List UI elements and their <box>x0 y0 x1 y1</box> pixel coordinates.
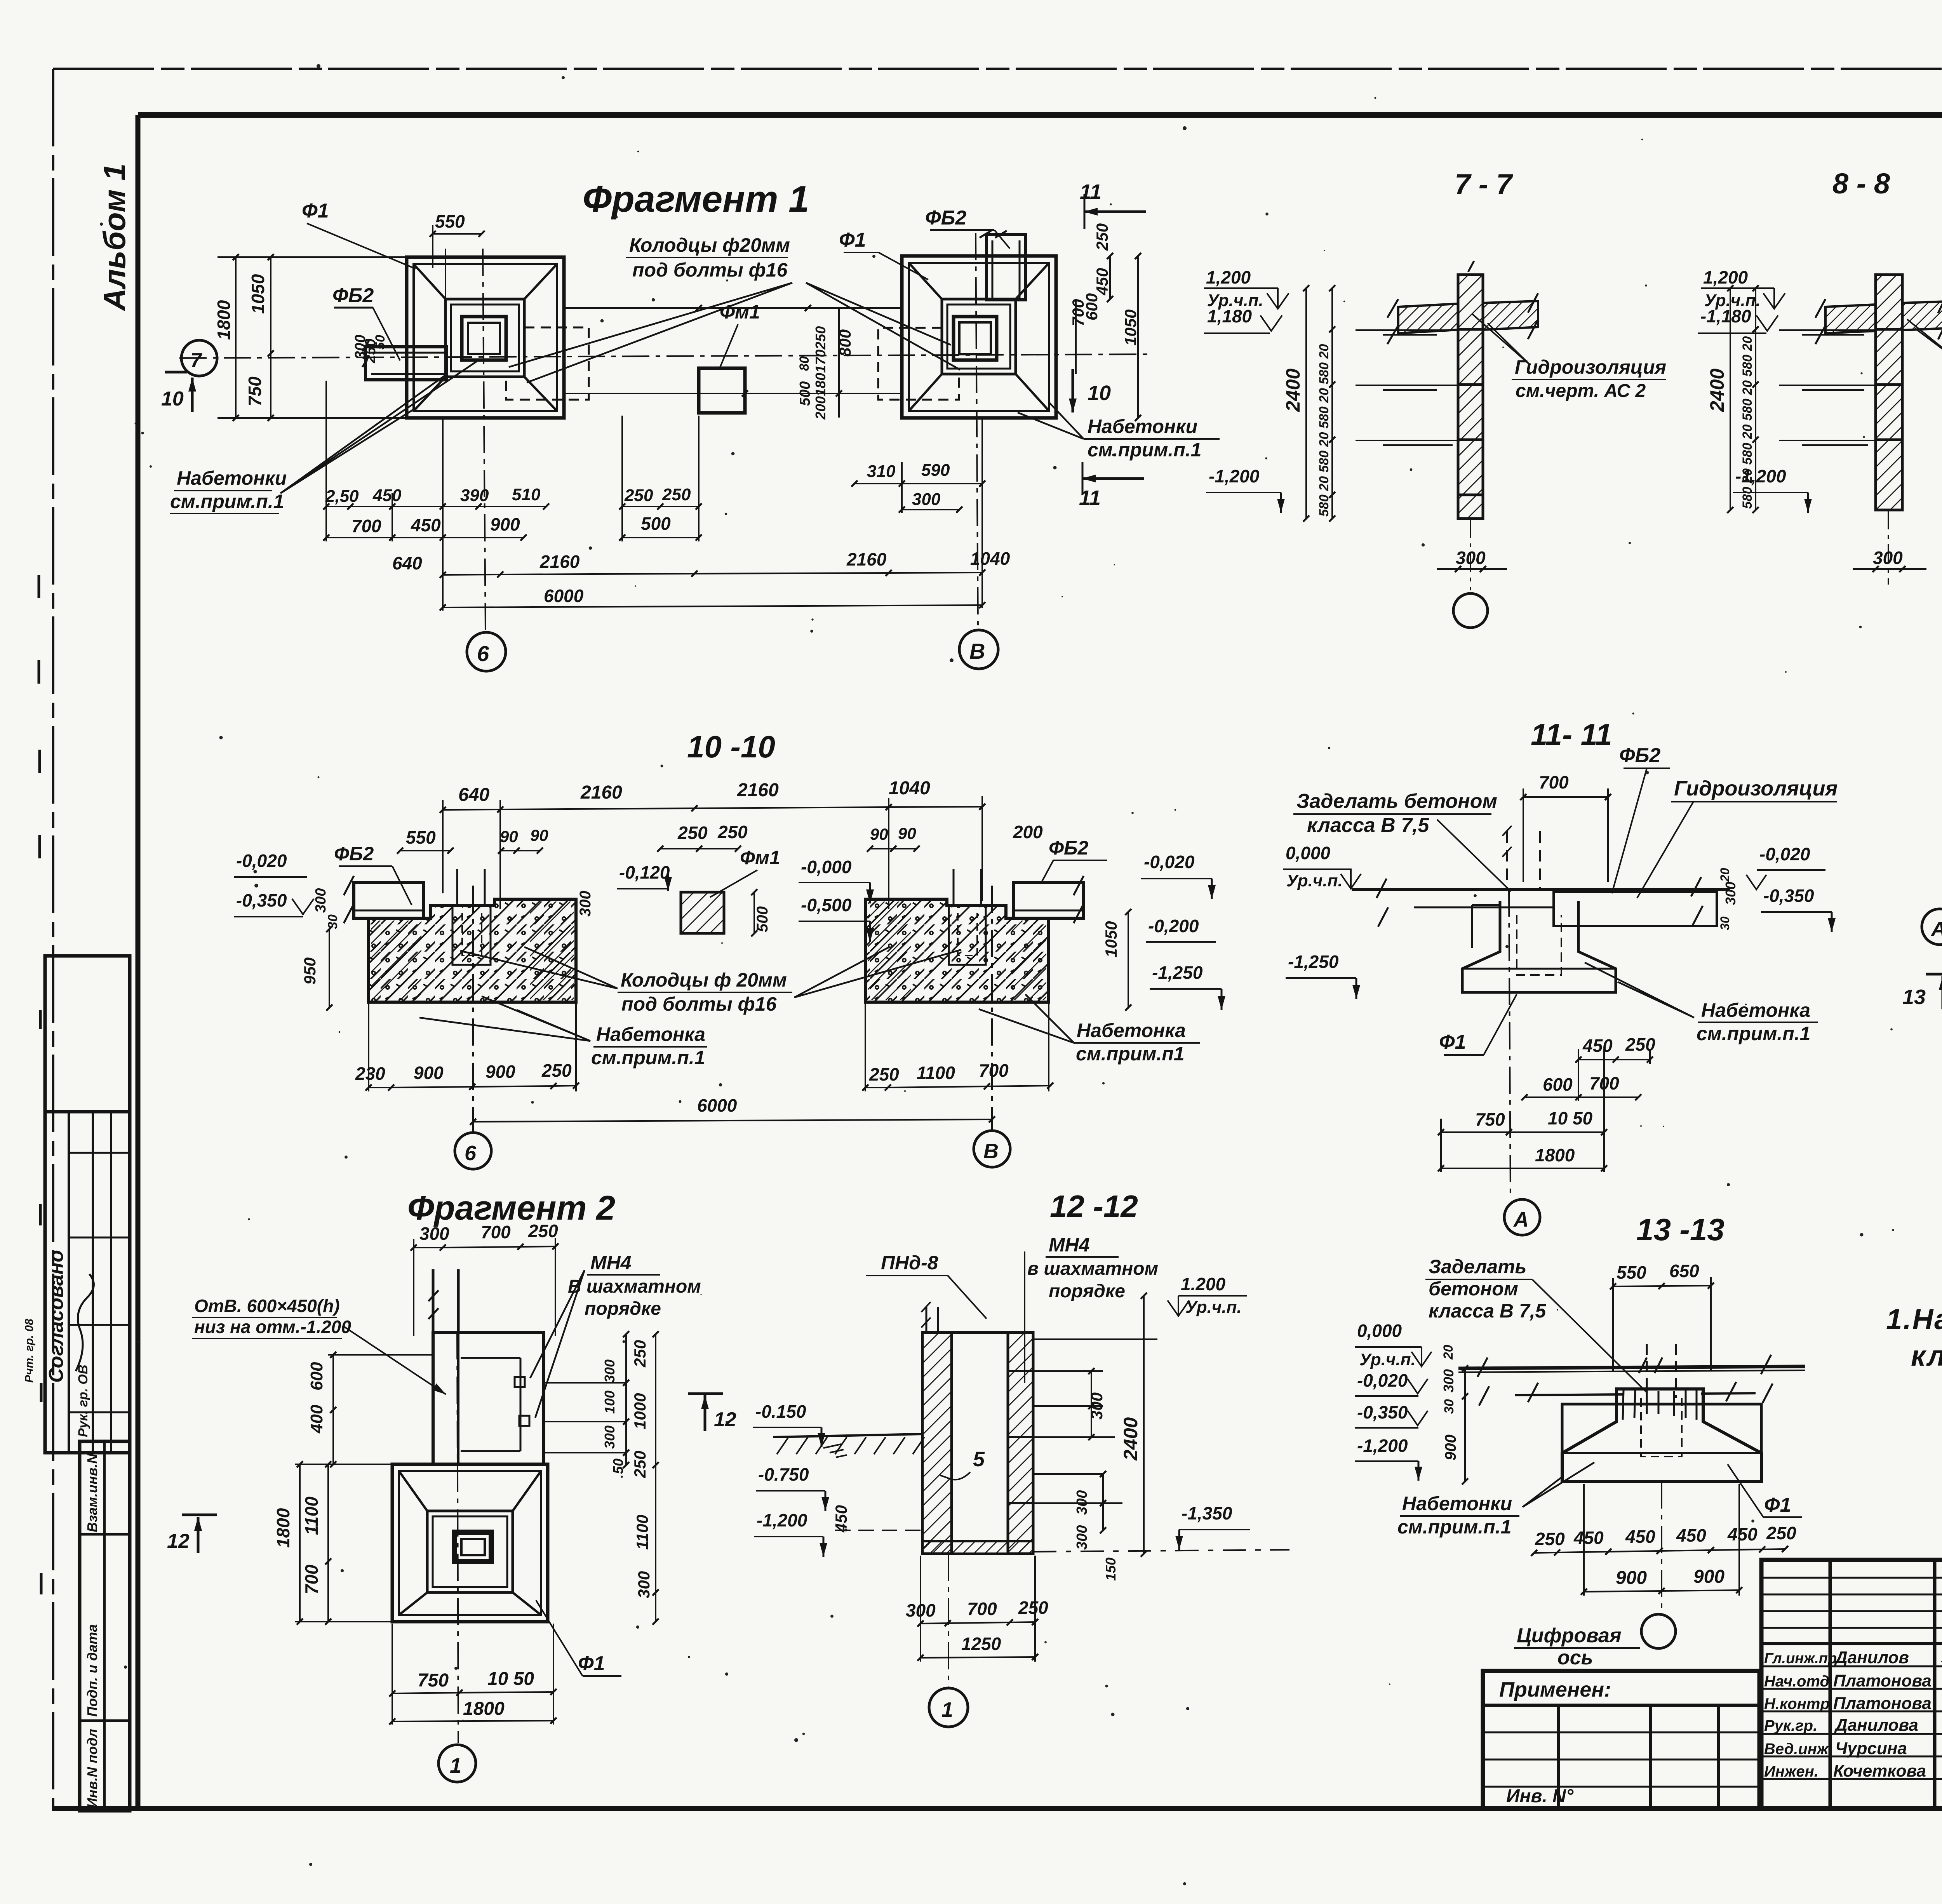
svg-text:0,000: 0,000 <box>1357 1321 1402 1341</box>
svg-text:450: 450 <box>372 486 402 505</box>
svg-text:550: 550 <box>1617 1262 1646 1283</box>
7-7 vertical dim 2400 <box>1305 288 1307 519</box>
svg-text:250: 250 <box>624 486 653 505</box>
inner thick frame <box>138 112 1942 118</box>
svg-text:50: 50 <box>610 1458 626 1474</box>
svg-text:650: 650 <box>1669 1261 1699 1281</box>
svg-text:450: 450 <box>411 515 441 535</box>
svg-text:250: 250 <box>1535 1529 1565 1549</box>
svg-text:ФБ2: ФБ2 <box>332 284 374 307</box>
svg-text:ОтВ. 600×450(h): ОтВ. 600×450(h) <box>194 1296 340 1316</box>
svg-text:Рчт. гр. 08: Рчт. гр. 08 <box>23 1319 36 1383</box>
FRAGMENT 3 <box>1902 719 1942 1242</box>
svg-text:1: 1 <box>941 1698 953 1721</box>
svg-text:в шахматном: в шахматном <box>1027 1258 1158 1279</box>
svg-text:-1,250: -1,250 <box>1288 952 1339 972</box>
svg-text:-0,120: -0,120 <box>619 862 670 882</box>
stub above <box>926 1307 938 1332</box>
svg-text:300: 300 <box>1088 1392 1106 1420</box>
svg-text:2160: 2160 <box>580 782 622 803</box>
svg-text:310: 310 <box>867 462 896 481</box>
svg-text:500: 500 <box>641 513 671 534</box>
svg-text:6: 6 <box>465 1142 477 1165</box>
svg-text:300: 300 <box>1074 1525 1090 1550</box>
svg-text:А: А <box>1513 1208 1529 1231</box>
svg-text:750: 750 <box>418 1670 449 1691</box>
svg-text:700: 700 <box>352 516 381 536</box>
svg-text:Платонова: Платонова <box>1833 1694 1932 1713</box>
svg-text:класса В15. Расход бетона-3,2: класса В15. Расход бетона-3,2 м³ <box>1911 1340 1942 1372</box>
svg-text:2400: 2400 <box>1282 369 1304 412</box>
svg-text:510: 510 <box>512 485 541 504</box>
svg-text:-0,350: -0,350 <box>236 890 287 910</box>
svg-text:под болты ф16: под болты ф16 <box>632 259 788 281</box>
svg-text:Н.контр: Н.контр <box>1764 1695 1830 1713</box>
svg-text:1250: 1250 <box>961 1634 1001 1654</box>
lower narrow stamp <box>80 1441 130 1811</box>
svg-text:300: 300 <box>1456 548 1486 568</box>
svg-text:ФБ2: ФБ2 <box>925 207 966 229</box>
column above dashed <box>1507 831 1540 889</box>
svg-text:см.черт. АС 2: см.черт. АС 2 <box>1516 381 1646 401</box>
svg-text:250: 250 <box>631 1451 649 1478</box>
svg-text:Инв. N°: Инв. N° <box>1506 1786 1574 1807</box>
8-8 floor slab hatched <box>1825 305 1876 333</box>
vertical shading in glass top <box>1623 1391 1697 1420</box>
svg-text:450: 450 <box>1727 1524 1758 1544</box>
svg-text:-1,200: -1,200 <box>1209 466 1260 486</box>
svg-text:1.200: 1.200 <box>1181 1274 1226 1294</box>
axis + circle 1 <box>457 1332 458 1743</box>
svg-text:550: 550 <box>435 211 465 231</box>
svg-text:-0,350: -0,350 <box>1763 886 1814 906</box>
svg-text:300: 300 <box>635 1571 653 1598</box>
svg-text:250: 250 <box>541 1060 572 1081</box>
svg-text:590: 590 <box>921 461 950 480</box>
svg-text:см.прим.п.1: см.прим.п.1 <box>170 491 284 512</box>
svg-text:-0,350: -0,350 <box>1357 1402 1408 1422</box>
right plan: stepped nabetonka dashed left <box>878 328 959 400</box>
7-7 axis below and circle <box>1470 519 1471 590</box>
svg-text:200180170250: 200180170250 <box>813 326 828 420</box>
svg-text:250: 250 <box>1093 223 1111 251</box>
svg-text:2400: 2400 <box>1706 369 1728 412</box>
svg-text:2160: 2160 <box>846 549 887 569</box>
svg-text:300: 300 <box>912 490 941 509</box>
footing glass <box>1562 1389 1761 1481</box>
svg-text:1100: 1100 <box>633 1515 651 1550</box>
svg-text:5: 5 <box>973 1448 985 1471</box>
svg-text:низ на отм.-1.200: низ на отм.-1.200 <box>194 1317 351 1337</box>
svg-text:80: 80 <box>797 356 812 371</box>
svg-text:Ф1: Ф1 <box>578 1652 605 1675</box>
svg-text:Нач.отд: Нач.отд <box>1764 1673 1829 1690</box>
axis line Б vertical <box>483 249 486 631</box>
svg-text:Инв.N подл: Инв.N подл <box>84 1729 100 1808</box>
LEFT MARGIN <box>23 164 132 1811</box>
axis line В vertical <box>976 233 978 629</box>
svg-text:390: 390 <box>460 486 489 505</box>
svg-text:12: 12 <box>167 1530 190 1552</box>
nabetonka left block <box>1472 905 1500 948</box>
svg-text:Фрагмент 1: Фрагмент 1 <box>583 178 809 220</box>
axis circle 7 <box>181 340 217 376</box>
svg-text:Фм1: Фм1 <box>720 301 760 323</box>
section marks 12 <box>704 1395 706 1431</box>
SECTION 12-12 <box>773 1189 1289 1727</box>
svg-text:20: 20 <box>1441 1345 1456 1360</box>
svg-text:500: 500 <box>754 906 771 932</box>
svg-text:90: 90 <box>530 826 548 844</box>
svg-text:250: 250 <box>662 485 691 504</box>
svg-text:6000: 6000 <box>697 1095 737 1116</box>
axis circle 1 <box>948 1554 949 1688</box>
svg-text:ПНд-8: ПНд-8 <box>881 1252 938 1274</box>
svg-text:10: 10 <box>1088 381 1111 405</box>
svg-text:Чурсина: Чурсина <box>1835 1739 1907 1758</box>
svg-text:7 - 7: 7 - 7 <box>1455 168 1514 200</box>
svg-text:30: 30 <box>1442 1399 1456 1414</box>
svg-text:Набетонки: Набетонки <box>1088 416 1197 437</box>
svg-text:Применен:: Применен: <box>1499 1678 1611 1701</box>
left revision columns <box>1761 1560 1942 1808</box>
svg-text:1800: 1800 <box>1535 1145 1575 1165</box>
svg-text:300: 300 <box>602 1359 618 1383</box>
left plan: stepped nabetonka dashed right <box>506 327 589 400</box>
NOTE <box>1886 1303 1942 1372</box>
svg-text:580 20 580 20 580 20 580 20: 580 20 580 20 580 20 580 20 <box>1317 344 1331 517</box>
10-10 middle footing Фм1 <box>681 892 724 933</box>
МН4 marks <box>515 1377 525 1387</box>
svg-text:700: 700 <box>1539 772 1569 792</box>
svg-text:-0,020: -0,020 <box>236 851 287 871</box>
svg-text:Цифровая: Цифровая <box>1517 1624 1621 1647</box>
svg-text:300: 300 <box>419 1224 449 1244</box>
left plan: column square <box>462 317 506 360</box>
svg-text:8 - 8: 8 - 8 <box>1832 167 1890 200</box>
svg-text:900: 900 <box>1616 1568 1647 1588</box>
svg-text:450: 450 <box>1676 1525 1706 1545</box>
outer thin frame <box>53 68 1942 70</box>
axes & circles <box>472 886 474 1133</box>
svg-text:640: 640 <box>458 785 489 805</box>
wall plan above <box>433 1332 544 1464</box>
svg-text:10 -10: 10 -10 <box>687 729 775 764</box>
svg-text:90: 90 <box>500 827 518 846</box>
svg-text:1040: 1040 <box>889 778 930 799</box>
svg-text:см.прим.п1: см.прим.п1 <box>1076 1043 1185 1065</box>
left plan: mid square <box>445 299 524 377</box>
svg-text:0,000: 0,000 <box>1286 843 1331 863</box>
svg-text:250: 250 <box>717 822 748 842</box>
svg-text:800: 800 <box>836 329 854 357</box>
7-7 column hatched <box>1458 275 1483 519</box>
svg-text:ФБ2: ФБ2 <box>1049 837 1088 859</box>
svg-text:Взам.инв.N: Взам.инв.N <box>84 1453 100 1532</box>
svg-text:-1,350: -1,350 <box>1182 1503 1232 1523</box>
anchor wells right <box>954 869 981 905</box>
right plan: column square <box>954 317 997 360</box>
svg-text:-0,000: -0,000 <box>801 857 852 877</box>
svg-text:950: 950 <box>301 957 319 985</box>
svg-text:см.прим.п.1: см.прим.п.1 <box>1088 439 1201 461</box>
svg-text:580 20 580 20 580 20 580 20: 580 20 580 20 580 20 580 20 <box>1740 336 1755 509</box>
svg-text:90: 90 <box>870 825 888 843</box>
svg-text:-1,250: -1,250 <box>1152 962 1203 983</box>
svg-text:Гидроизоляция: Гидроизоляция <box>1515 356 1666 378</box>
svg-text:750: 750 <box>1475 1109 1505 1130</box>
FB2 block right below slab <box>1554 892 1717 926</box>
svg-text:90: 90 <box>898 824 916 842</box>
svg-text:Гидроизоляция: Гидроизоляция <box>1674 777 1838 800</box>
section mark 10 left <box>191 378 194 412</box>
svg-text:класса В 7,5: класса В 7,5 <box>1307 814 1429 837</box>
plan outer square <box>392 1464 548 1622</box>
svg-text:450: 450 <box>832 1505 850 1533</box>
svg-text:700: 700 <box>481 1222 511 1242</box>
svg-text:150: 150 <box>1103 1558 1119 1581</box>
left plan: foundation F1 outer square <box>407 257 564 418</box>
svg-text:-0,500: -0,500 <box>801 895 852 915</box>
svg-text:600: 600 <box>307 1362 326 1391</box>
svg-text:Ф1: Ф1 <box>1439 1031 1466 1053</box>
svg-text:100: 100 <box>602 1391 618 1414</box>
svg-text:МН4: МН4 <box>590 1252 632 1274</box>
svg-text:1800: 1800 <box>214 300 234 340</box>
SECTION 11-11 <box>1283 717 1838 1235</box>
svg-text:50: 50 <box>373 335 388 350</box>
svg-text:300: 300 <box>1723 882 1738 905</box>
svg-text:550: 550 <box>406 827 436 848</box>
svg-text:В: В <box>983 1140 999 1163</box>
svg-text:порядке: порядке <box>585 1298 661 1319</box>
svg-text:1: 1 <box>450 1754 461 1777</box>
Фм1 small footing plan <box>699 368 745 413</box>
svg-text:300: 300 <box>1441 1369 1456 1392</box>
svg-text:-0,020: -0,020 <box>1357 1370 1408 1391</box>
svg-text:Набетонка: Набетонка <box>1701 999 1810 1021</box>
svg-text:Ф1: Ф1 <box>302 200 329 222</box>
svg-text:10: 10 <box>161 388 184 410</box>
svg-text:450: 450 <box>1625 1526 1655 1547</box>
svg-text:Ур.ч.п.: Ур.ч.п. <box>1286 871 1343 890</box>
column dark square <box>454 1532 491 1561</box>
svg-text:см.прим.п.1: см.прим.п.1 <box>1397 1516 1511 1538</box>
dim 1050/750 <box>270 257 271 418</box>
svg-text:-0,020: -0,020 <box>1759 844 1810 864</box>
svg-text:600: 600 <box>1543 1074 1573 1095</box>
footing glass <box>1462 901 1616 992</box>
svg-text:30: 30 <box>1718 916 1732 930</box>
svg-text:Набетонка: Набетонка <box>1077 1020 1186 1041</box>
svg-text:13 -13: 13 -13 <box>1636 1212 1724 1247</box>
8-8 column hatched <box>1876 275 1902 510</box>
svg-text:Подп. и дата: Подп. и дата <box>84 1624 100 1717</box>
svg-text:Рук.гр.: Рук.гр. <box>1764 1717 1817 1734</box>
Применен table <box>1483 1671 1759 1808</box>
right plan: outer square <box>902 256 1056 418</box>
svg-text:Рук. гр. ОВ: Рук. гр. ОВ <box>76 1364 90 1437</box>
svg-text:1050: 1050 <box>1121 310 1140 346</box>
8-8 joint extensions <box>1779 329 1876 331</box>
svg-text:1,180: 1,180 <box>1207 306 1252 326</box>
svg-text:-1,200: -1,200 <box>757 1510 807 1530</box>
rotated dim stack right of left plan 200180170250 <box>838 307 840 418</box>
svg-text:450: 450 <box>1573 1528 1604 1548</box>
FB2 beam right <box>1014 882 1084 918</box>
FRAGMENT 2 (bottom-left plan) <box>167 1189 850 1782</box>
svg-text:1000: 1000 <box>631 1393 649 1429</box>
svg-text:1100: 1100 <box>917 1063 955 1083</box>
nabetonka outer box <box>1562 1404 1761 1481</box>
svg-text:250: 250 <box>1766 1523 1796 1543</box>
svg-text:см.прим.п.1: см.прим.п.1 <box>591 1047 705 1069</box>
left plan: FB2 beam left <box>365 347 447 380</box>
left plan: slope diagonals <box>414 264 557 411</box>
svg-text:500: 500 <box>797 381 813 406</box>
svg-text:В шахматном: В шахматном <box>568 1276 701 1297</box>
svg-text:1050: 1050 <box>1102 921 1120 957</box>
leaders to wells <box>509 283 960 383</box>
svg-text:900: 900 <box>486 1062 515 1082</box>
right plan: FB2 beam vertical top <box>987 235 1025 300</box>
axis + circle A <box>1509 889 1510 1198</box>
svg-text:600: 600 <box>1082 293 1101 320</box>
svg-text:30: 30 <box>325 914 340 929</box>
svg-text:Ур.ч.п.: Ур.ч.п. <box>1185 1298 1242 1317</box>
Согласовано stamp <box>45 1112 130 1453</box>
8-8 vertical dim 2400 <box>1730 288 1731 510</box>
SECTION 10-10 <box>234 729 1222 1169</box>
svg-text:Вед.инж: Вед.инж <box>1764 1740 1829 1758</box>
svg-text:900: 900 <box>1442 1434 1459 1460</box>
svg-text:Фрагмент 2: Фрагмент 2 <box>407 1189 615 1227</box>
svg-text:250: 250 <box>631 1340 649 1368</box>
svg-text:Набетонка: Набетонка <box>596 1023 705 1045</box>
axis circle Б <box>467 632 506 671</box>
SECTION 13-13 <box>1355 1212 1805 1669</box>
FRAGMENT 1 (top-left plan) <box>161 178 1220 671</box>
svg-text:1050: 1050 <box>248 274 268 314</box>
svg-text:640: 640 <box>392 553 422 573</box>
10-10 right footing body (stepped, concrete) <box>865 899 1049 1002</box>
svg-text:Кочеткова: Кочеткова <box>1833 1761 1926 1780</box>
svg-text:-0,200: -0,200 <box>1148 916 1199 936</box>
svg-text:Согласовано: Согласовано <box>45 1250 68 1383</box>
svg-text:-1,180: -1,180 <box>1700 306 1751 326</box>
svg-text:300: 300 <box>602 1425 618 1449</box>
svg-text:под болты ф16: под болты ф16 <box>621 993 777 1015</box>
svg-text:11: 11 <box>1080 180 1102 204</box>
svg-text:Альбом 1: Альбом 1 <box>97 164 132 312</box>
svg-text:Ф1: Ф1 <box>1764 1494 1791 1516</box>
svg-text:20: 20 <box>1718 868 1732 882</box>
svg-text:300: 300 <box>313 888 329 913</box>
svg-text:1,200: 1,200 <box>1703 267 1748 287</box>
svg-text:7: 7 <box>190 349 202 372</box>
TITLE BLOCK <box>1483 1560 1942 1808</box>
ground line left <box>773 1434 922 1437</box>
svg-text:1,200: 1,200 <box>1206 267 1251 287</box>
svg-text:450: 450 <box>1582 1036 1613 1056</box>
rotated dims right of right plan <box>1075 299 1077 374</box>
svg-text:В: В <box>969 639 985 663</box>
svg-text:бетоном: бетоном <box>1429 1278 1518 1300</box>
svg-text:6: 6 <box>477 641 489 666</box>
svg-text:порядке: порядке <box>1049 1281 1125 1302</box>
svg-text:750: 750 <box>245 376 265 406</box>
svg-text:-1,200: -1,200 <box>1357 1436 1408 1456</box>
7-7 dim stack 580/20 <box>1331 288 1333 519</box>
svg-text:250: 250 <box>1018 1598 1048 1618</box>
svg-text:300: 300 <box>1074 1490 1090 1515</box>
structure: floor slab lines <box>1352 888 1730 891</box>
floor slabs <box>1458 1366 1805 1368</box>
right plan: mid square <box>942 299 1016 374</box>
svg-text:700: 700 <box>979 1060 1009 1081</box>
svg-text:230: 230 <box>355 1063 385 1084</box>
svg-text:Данилова: Данилова <box>1834 1716 1918 1735</box>
svg-text:900: 900 <box>490 514 520 534</box>
svg-text:1100: 1100 <box>301 1497 322 1535</box>
svg-text:900: 900 <box>414 1063 444 1083</box>
axis + circle <box>1661 1481 1662 1614</box>
svg-text:Ур.ч.п.: Ур.ч.п. <box>1359 1350 1416 1369</box>
svg-text:2160: 2160 <box>539 552 580 572</box>
svg-text:-0.750: -0.750 <box>758 1464 809 1485</box>
svg-text:200: 200 <box>1013 822 1043 842</box>
svg-text:Заделать бетоном: Заделать бетоном <box>1296 790 1497 813</box>
dashed well <box>1641 1398 1682 1457</box>
lines right of wall (мн4 annotation lines) <box>544 1382 625 1384</box>
svg-text:ось: ось <box>1557 1646 1593 1669</box>
svg-text:2160: 2160 <box>737 780 779 801</box>
svg-text:-0,020: -0,020 <box>1144 852 1195 872</box>
svg-text:1800: 1800 <box>463 1699 505 1719</box>
svg-text:250: 250 <box>677 823 708 843</box>
svg-text:Данилов: Данилов <box>1834 1648 1909 1667</box>
horizontal thin dim lines between plans <box>564 307 902 309</box>
svg-text:2400: 2400 <box>1120 1417 1142 1461</box>
svg-text:13: 13 <box>1902 985 1926 1009</box>
svg-text:250: 250 <box>869 1064 899 1084</box>
svg-text:300: 300 <box>577 891 594 917</box>
svg-text:Платонова: Платонова <box>1833 1671 1932 1690</box>
extension verticals for dim rows <box>325 381 327 541</box>
7-7 joint extension lines <box>1356 329 1458 331</box>
svg-text:2,50: 2,50 <box>325 487 359 506</box>
right plan: slope diagonals <box>909 263 1049 411</box>
SECTIONS 7-7 8-8 9-9 <box>1204 167 1942 645</box>
svg-text:10 50: 10 50 <box>1548 1108 1593 1128</box>
svg-text:А: А <box>1930 917 1942 941</box>
svg-text:11- 11: 11- 11 <box>1531 717 1612 752</box>
svg-text:Ф1: Ф1 <box>839 229 866 251</box>
svg-text:Заделать: Заделать <box>1429 1256 1526 1277</box>
svg-text:Колодцы ф20мм: Колодцы ф20мм <box>629 234 790 256</box>
anchor wells dashed <box>457 869 485 905</box>
svg-text:400: 400 <box>307 1405 326 1434</box>
svg-text:250: 250 <box>1625 1034 1655 1055</box>
svg-text:700: 700 <box>967 1599 997 1619</box>
section mark 10 right <box>1072 369 1074 412</box>
svg-text:Гл.инж.пр: Гл.инж.пр <box>1764 1650 1837 1667</box>
svg-text:10 50: 10 50 <box>487 1669 534 1689</box>
svg-text:Колодцы ф 20мм: Колодцы ф 20мм <box>621 969 787 991</box>
svg-text:1.Набетонки выполнить из бето: 1.Набетонки выполнить из бетона <box>1886 1303 1942 1335</box>
svg-text:1800: 1800 <box>273 1508 293 1548</box>
horizontal lines right of walls <box>1033 1338 1157 1340</box>
